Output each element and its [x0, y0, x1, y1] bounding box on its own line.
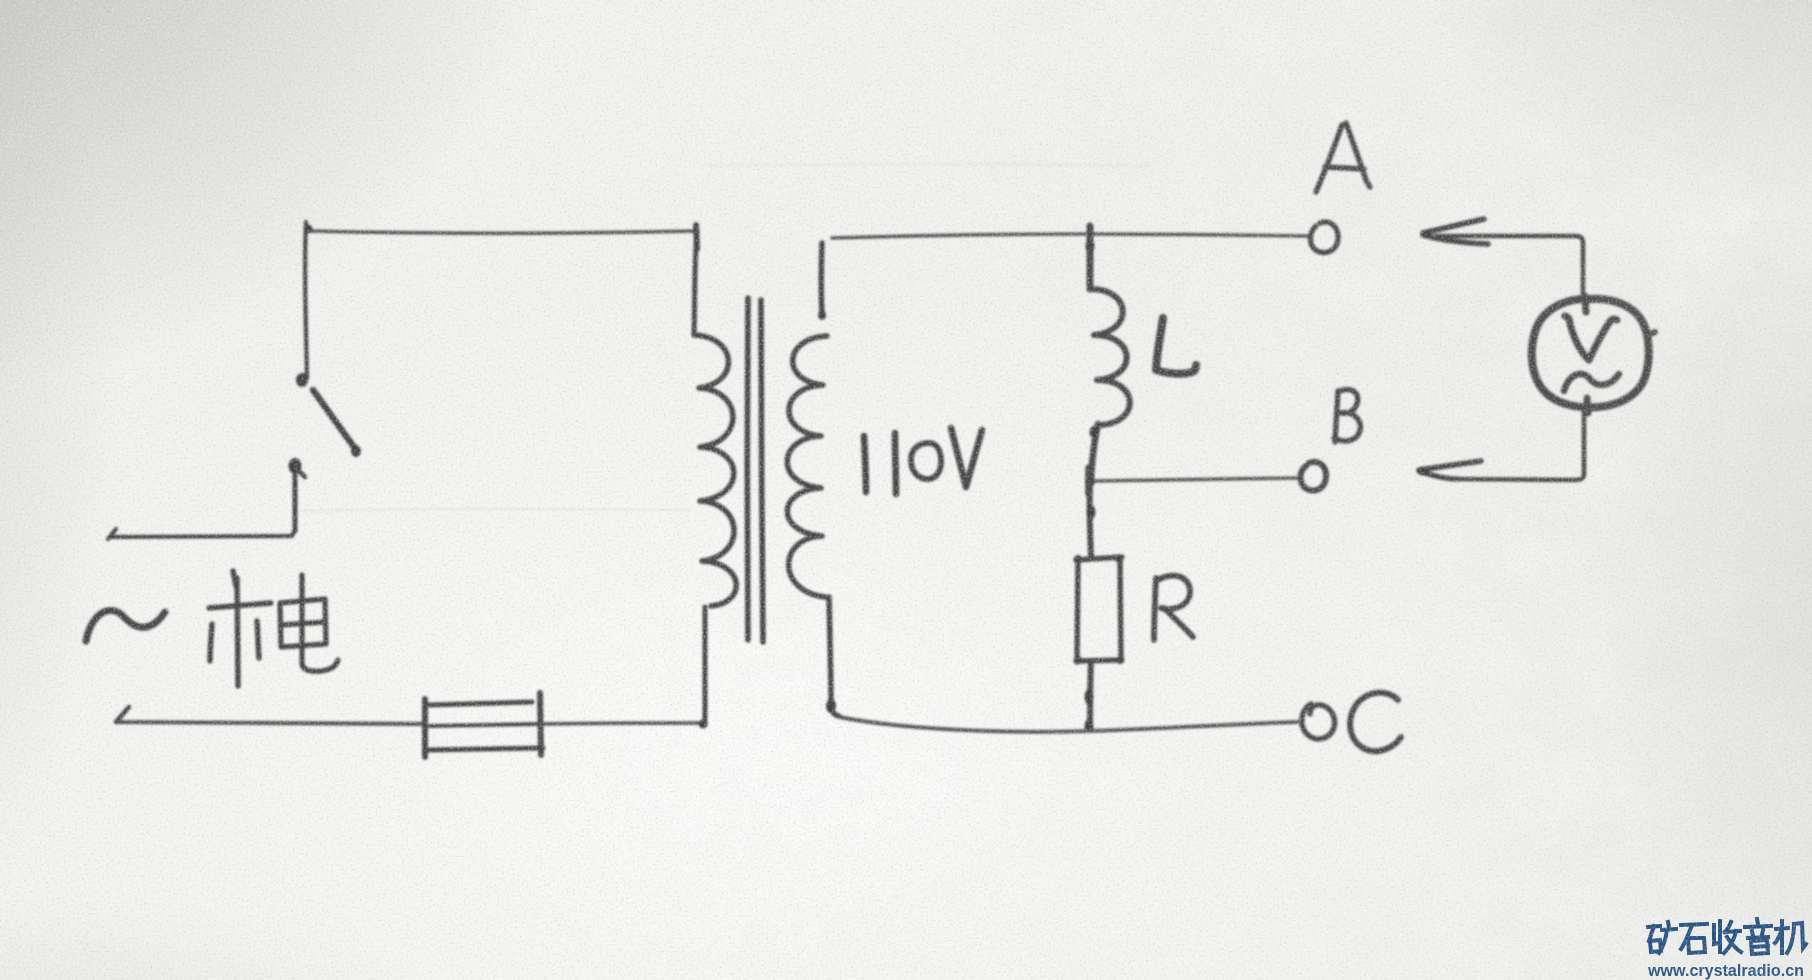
- watermark crystalradio logo: [1648, 919, 1806, 954]
- wire mains lower lead: [116, 707, 425, 724]
- wire left vertical (to switch): [305, 222, 307, 378]
- label A: [1316, 123, 1370, 192]
- arrowhead to A: [1422, 219, 1488, 244]
- voltmeter V1: [1532, 296, 1655, 413]
- wire node to terminal B: [1093, 478, 1299, 481]
- AC source label ~: [86, 610, 165, 641]
- inductor L: [1086, 239, 1130, 479]
- resistor R: [1074, 555, 1124, 664]
- transformer T1 secondary winding: [787, 243, 839, 716]
- paper crease lines: [300, 164, 1150, 511]
- wire voltmeter top lead: [1436, 236, 1583, 299]
- label C: [1350, 693, 1401, 752]
- 音: [1745, 919, 1771, 954]
- arrowhead to B: [1417, 461, 1481, 479]
- wire bottom right to terminal C: [839, 717, 1297, 732]
- wire fuse to transformer: [541, 720, 708, 729]
- label L: [1156, 318, 1196, 374]
- label 110V: [864, 428, 982, 494]
- label R: [1154, 576, 1193, 640]
- junction node L-top: [1087, 226, 1094, 252]
- label 电: [280, 575, 338, 671]
- 机: [1775, 921, 1806, 953]
- 收: [1714, 921, 1741, 953]
- terminal A: [1310, 222, 1338, 252]
- wire node to resistor: [1087, 481, 1096, 556]
- 石: [1681, 924, 1707, 953]
- wire switch lower lead: [108, 474, 295, 539]
- wire top-left horizontal: [304, 225, 698, 234]
- label B: [1334, 390, 1360, 442]
- transformer T1 primary winding: [694, 225, 736, 725]
- wire resistor bottom lead: [1085, 662, 1094, 733]
- fuse F1: [425, 693, 543, 757]
- wire secondary to terminal A: [832, 234, 1308, 238]
- terminal C: [1302, 704, 1335, 739]
- terminal B: [1300, 462, 1326, 491]
- transformer core: [747, 298, 763, 642]
- 矿: [1648, 922, 1676, 953]
- label 市: [209, 571, 271, 686]
- wire voltmeter bottom lead: [1449, 407, 1584, 480]
- switch S1: [289, 373, 362, 477]
- junction node L-bottom: [1085, 468, 1093, 494]
